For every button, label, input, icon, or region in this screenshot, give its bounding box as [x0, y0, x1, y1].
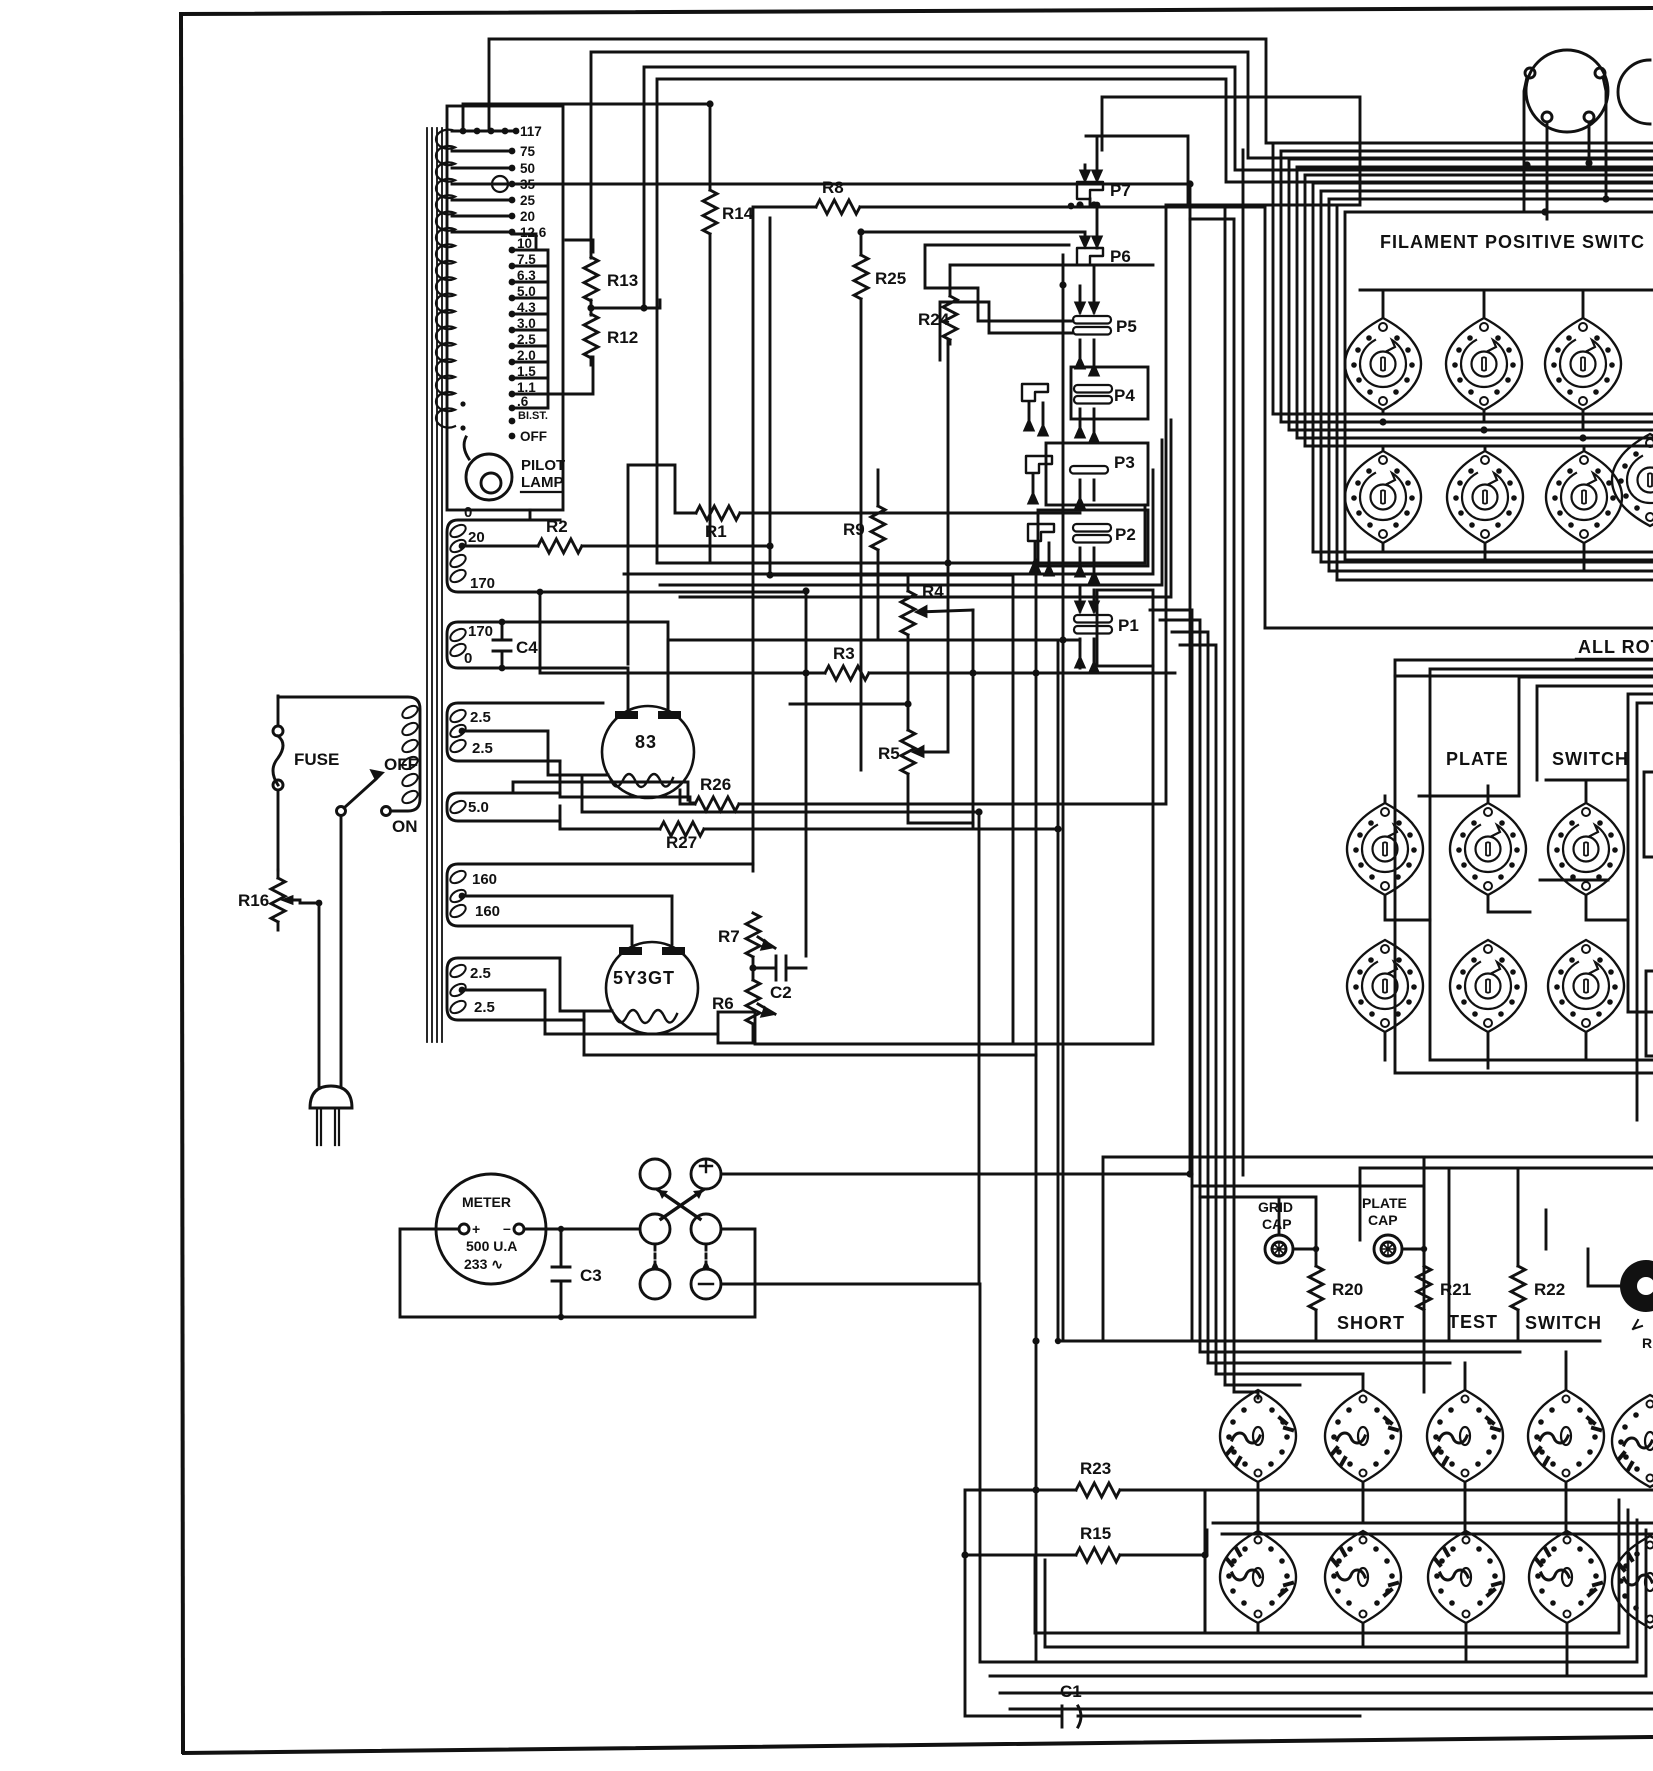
wire second winding to tube 83 plates — [560, 622, 668, 711]
resistor R24 — [918, 265, 1153, 344]
right lower bus horizontals — [1265, 414, 1653, 628]
resistor R23 — [965, 1459, 1653, 1497]
svg-text:C1: C1 — [1060, 1682, 1082, 1701]
svg-text:0: 0 — [464, 650, 472, 667]
svg-text:METER: METER — [462, 1194, 511, 1210]
svg-text:CAP: CAP — [1262, 1216, 1292, 1232]
wire long horizontals under tubes — [668, 639, 1080, 642]
resistor R27 — [560, 806, 1058, 852]
svg-text:PLATE: PLATE — [1446, 749, 1509, 769]
potentiometer R6 — [712, 980, 775, 1043]
capacitor C1 — [965, 1492, 1360, 1727]
svg-text:GRID: GRID — [1258, 1199, 1293, 1215]
svg-text:P4: P4 — [1114, 386, 1135, 405]
svg-text:PILOT: PILOT — [521, 457, 565, 474]
tube 83 — [602, 706, 694, 798]
short test switch labels — [1337, 1312, 1602, 1333]
tap ladder bus — [512, 234, 548, 408]
top right tube socket — [1524, 50, 1608, 219]
wire 160 taps to R7 and 5Y3GT — [560, 864, 753, 944]
svg-text:2.5: 2.5 — [474, 999, 495, 1016]
grid cap — [1258, 1199, 1293, 1263]
filament switch box — [1345, 212, 1653, 560]
wire 0 tap — [530, 510, 560, 520]
bundle fan to bottom sockets — [1192, 1341, 1580, 1398]
svg-text:FILAMENT POSITIVE SWITC: FILAMENT POSITIVE SWITC — [1380, 232, 1645, 252]
reversing switch — [640, 1159, 721, 1299]
resistor R25 — [854, 232, 1075, 770]
svg-text:+: + — [472, 1221, 480, 1237]
svg-text:117: 117 — [520, 124, 542, 139]
connector P2 — [1073, 524, 1136, 582]
svg-text:FUSE: FUSE — [294, 750, 339, 769]
top bus wire 3 — [644, 67, 1653, 308]
capacitor C2 — [753, 956, 806, 1002]
svg-text:25: 25 — [520, 193, 536, 208]
svg-text:R24: R24 — [918, 310, 950, 329]
plate socket row 1 — [1347, 803, 1624, 895]
svg-text:50: 50 — [520, 161, 535, 176]
wire 2.5 taps to tube 83 filament — [560, 703, 603, 797]
svg-text:R27: R27 — [666, 833, 697, 852]
svg-text:500 U.A: 500 U.A — [466, 1238, 517, 1254]
wire 5.0 tap to R26 — [513, 782, 688, 829]
right bus horizontals — [1273, 143, 1653, 199]
svg-text:C4: C4 — [516, 638, 538, 657]
wire tap board top — [463, 104, 710, 190]
plate cap — [1362, 1195, 1407, 1263]
svg-text:2.5: 2.5 — [470, 709, 491, 726]
resistor R15 — [965, 1524, 1207, 1562]
transformer T1 filament-select secondary winding — [436, 130, 455, 428]
transformer T1 primary winding — [278, 697, 420, 811]
svg-text:P3: P3 — [1114, 453, 1135, 472]
svg-text:2.5: 2.5 — [470, 965, 491, 982]
filament socket row 2 — [1345, 451, 1622, 543]
svg-text:233 ∿: 233 ∿ — [464, 1256, 503, 1272]
roll chart lamp — [1546, 1210, 1653, 1351]
power secondary tap labels — [464, 504, 500, 1016]
svg-text:–: – — [503, 1220, 511, 1236]
svg-text:OFF: OFF — [520, 429, 547, 444]
svg-text:ON: ON — [392, 817, 418, 836]
connector P7 — [1068, 136, 1188, 248]
svg-text:75: 75 — [520, 144, 536, 159]
tap labels — [517, 124, 548, 444]
ALL ROTARY label — [1576, 637, 1653, 659]
resistor R13 — [584, 252, 638, 308]
svg-text:160: 160 — [475, 903, 500, 920]
svg-text:20: 20 — [520, 209, 535, 224]
extra dots — [766, 180, 1193, 676]
svg-text:P5: P5 — [1116, 317, 1137, 336]
resistor R22 — [1511, 1168, 1565, 1341]
top bus wire 1 — [489, 39, 1653, 143]
cap wires — [1293, 1248, 1424, 1251]
bottom bus — [980, 1284, 1653, 1709]
top bus wire 4 — [657, 79, 1653, 563]
jack J2 — [1028, 524, 1054, 575]
svg-text:TEST: TEST — [1448, 1312, 1498, 1332]
svg-text:P7: P7 — [1110, 181, 1131, 200]
svg-text:R16: R16 — [238, 891, 269, 910]
resistor R21 — [1417, 1249, 1471, 1341]
resistor R14 — [703, 190, 754, 560]
svg-text:C2: C2 — [770, 983, 792, 1002]
short/test section box — [1055, 1157, 1653, 1344]
wire 2.5 taps to tube 5Y3GT filament — [545, 958, 612, 1034]
svg-text:5.0: 5.0 — [468, 799, 489, 816]
transformer T1 core — [427, 128, 442, 1042]
svg-text:160: 160 — [472, 871, 497, 888]
resistor R26 — [680, 205, 1166, 811]
svg-text:R26: R26 — [700, 775, 731, 794]
center vertical bundle — [1150, 150, 1243, 1392]
resistor R8 — [753, 178, 1265, 871]
svg-text:R22: R22 — [1534, 1280, 1565, 1299]
potentiometer R4 — [790, 575, 977, 824]
potentiometer R7 — [718, 913, 775, 980]
wires to plug — [300, 816, 341, 1086]
resistor R1 — [628, 465, 1080, 664]
svg-text:P6: P6 — [1110, 247, 1131, 266]
wires for R13/R12 — [548, 240, 660, 394]
svg-text:R1: R1 — [705, 522, 727, 541]
svg-text:R9: R9 — [843, 520, 865, 539]
svg-text:R23: R23 — [1080, 1459, 1111, 1478]
top bus wire 2 — [591, 52, 1653, 252]
svg-text:P2: P2 — [1115, 525, 1136, 544]
svg-text:R15: R15 — [1080, 1524, 1111, 1543]
svg-text:OFF: OFF — [384, 755, 418, 774]
svg-text:R21: R21 — [1440, 1280, 1471, 1299]
capacitor C4 — [493, 622, 538, 668]
tube 5Y3GT — [606, 942, 698, 1034]
plate switch boxes — [1395, 660, 1653, 1120]
partial circle right edge — [1618, 60, 1650, 124]
svg-text:R14: R14 — [722, 204, 754, 223]
wire 170 tap to C2 column — [560, 592, 806, 956]
svg-text:R13: R13 — [607, 271, 638, 290]
jack J3 — [1026, 456, 1052, 503]
potentiometer R16 — [238, 870, 300, 930]
svg-text:ALL ROT: ALL ROT — [1578, 637, 1653, 657]
bottom bank interconnect wires — [1205, 1482, 1653, 1676]
svg-text:C3: C3 — [580, 1266, 602, 1285]
svg-text:0: 0 — [464, 504, 472, 521]
connector P5 — [1073, 266, 1137, 375]
pilot lamp underline — [521, 491, 562, 493]
meter box + C3 — [400, 1226, 755, 1320]
row1 wires — [1360, 290, 1653, 430]
svg-text:P1: P1 — [1118, 616, 1139, 635]
svg-text:R25: R25 — [875, 269, 906, 288]
tap dots and leads — [452, 128, 519, 440]
svg-text:R3: R3 — [833, 644, 855, 663]
P-block boxes — [925, 97, 1360, 804]
meter M1 — [436, 1174, 546, 1284]
filament socket row 1 — [1345, 318, 1653, 526]
connector P3 — [1070, 453, 1135, 508]
svg-text:R20: R20 — [1332, 1280, 1363, 1299]
svg-text:170: 170 — [468, 623, 493, 640]
P column verticals — [979, 255, 1063, 1662]
svg-text:R5: R5 — [878, 744, 900, 763]
resistor R12 — [584, 308, 638, 365]
svg-text:CAP: CAP — [1368, 1212, 1398, 1228]
right staircase verticals — [1265, 143, 1337, 628]
svg-text:SWITCH: SWITCH — [1552, 749, 1629, 769]
tube 83 leads — [582, 640, 979, 812]
tube 5Y3GT leads — [584, 1011, 718, 1055]
svg-text:R12: R12 — [607, 328, 638, 347]
connector P6 — [1040, 232, 1131, 266]
fuse F1 — [273, 696, 339, 870]
potentiometer R5 — [878, 340, 973, 829]
svg-text:SWITCH: SWITCH — [1525, 1313, 1602, 1333]
switch S-ON/OFF — [337, 755, 419, 836]
bottom section boxes — [1205, 1157, 1424, 1630]
jack J4 — [1022, 384, 1048, 435]
bottom socket row 1 — [1220, 1390, 1653, 1487]
switch output wires — [721, 1174, 1190, 1284]
svg-text:5Y3GT: 5Y3GT — [613, 968, 675, 988]
svg-text:R6: R6 — [712, 994, 734, 1013]
resistor R20 — [1309, 1249, 1363, 1341]
svg-text:SHORT: SHORT — [1337, 1313, 1405, 1333]
svg-text:20: 20 — [468, 529, 485, 546]
tap board box — [447, 106, 563, 510]
pilot lamp — [464, 437, 512, 500]
svg-text:R: R — [1642, 1335, 1652, 1351]
connector P1 — [1074, 585, 1139, 672]
svg-text:R8: R8 — [822, 178, 844, 197]
svg-text:83: 83 — [635, 732, 657, 752]
svg-text:PLATE: PLATE — [1362, 1195, 1407, 1211]
svg-text:170: 170 — [470, 575, 495, 592]
svg-text:R7: R7 — [718, 927, 740, 946]
svg-text:2.5: 2.5 — [472, 740, 493, 757]
AC plug — [310, 1086, 352, 1145]
resistor R2 — [538, 517, 1013, 1044]
socket stems and cap feed lines — [1192, 446, 1628, 1249]
connector P4 — [1074, 385, 1135, 442]
svg-text:BI.ST.: BI.ST. — [518, 410, 548, 422]
resistor R3 — [540, 592, 1175, 680]
bottom socket row 2 — [1220, 1531, 1653, 1628]
resistor R9 — [843, 470, 885, 640]
plate socket row 2 — [1347, 940, 1624, 1032]
svg-text:LAMP: LAMP — [521, 474, 564, 491]
transformer T1 power secondary windings — [447, 520, 672, 1034]
svg-text:R2: R2 — [546, 517, 568, 536]
wire 35-tap long run — [508, 184, 1190, 1174]
